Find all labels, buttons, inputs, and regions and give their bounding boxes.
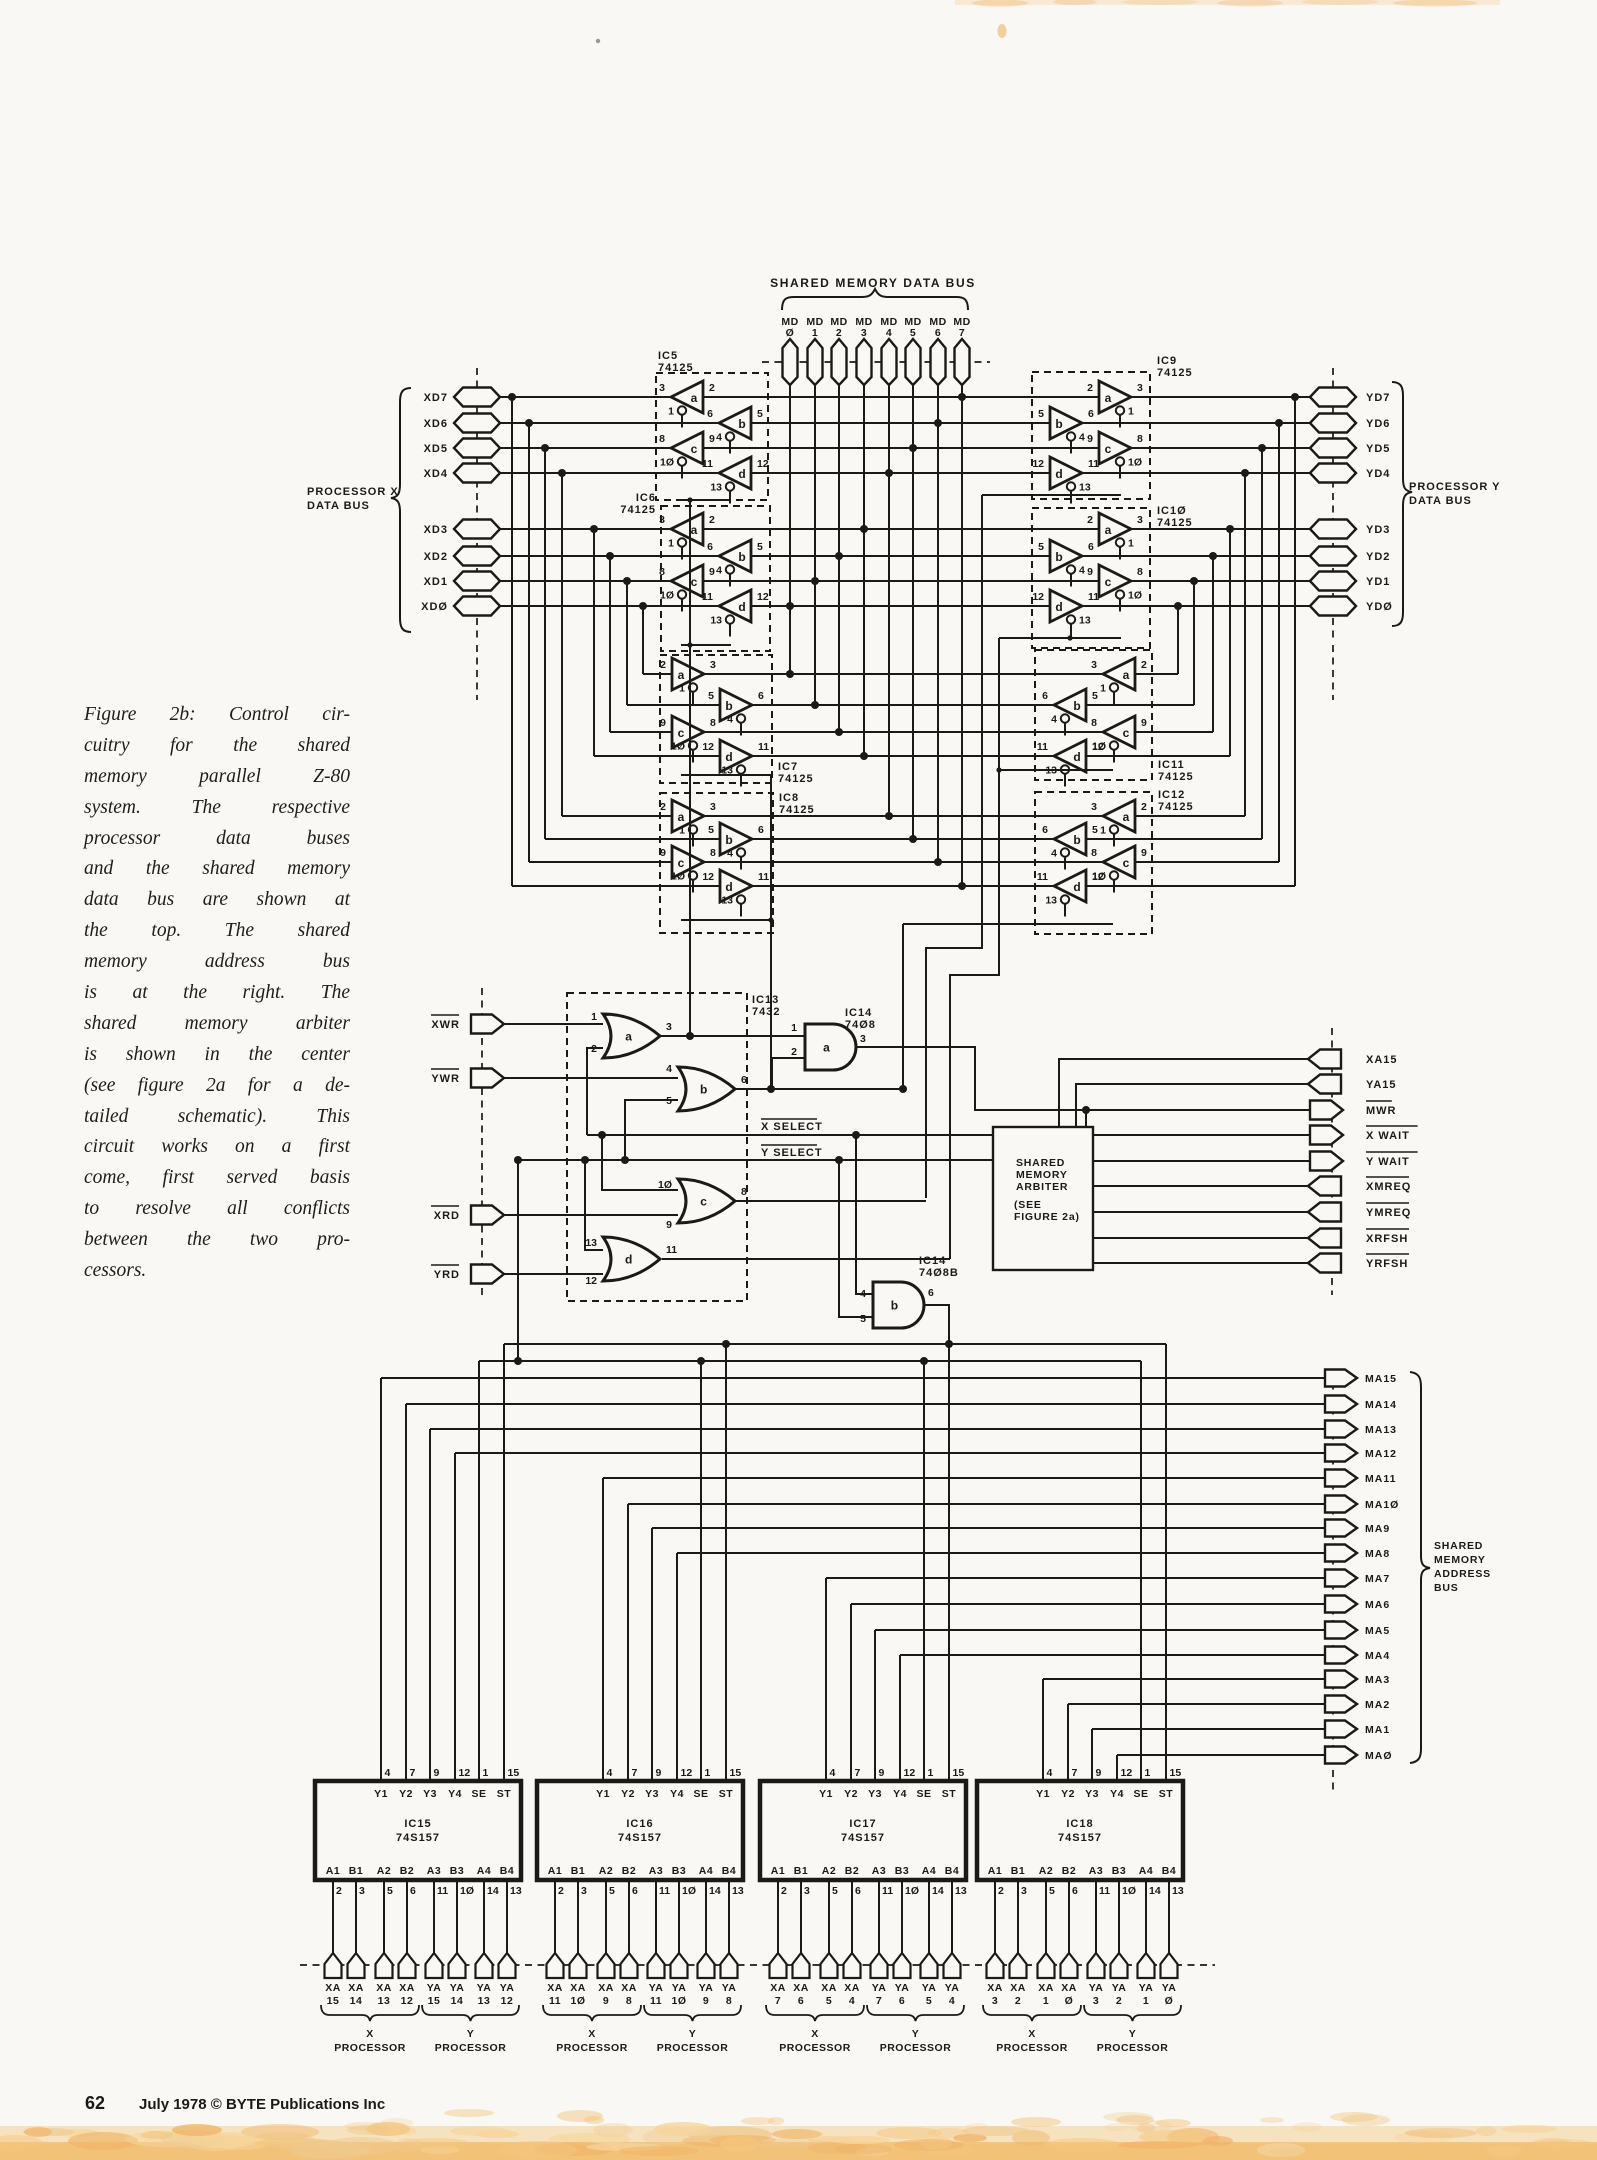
- svg-text:a: a: [625, 1030, 632, 1044]
- svg-text:2: 2: [709, 382, 715, 394]
- node YAØ input terminal IC18: [1161, 1880, 1178, 2007]
- svg-text:7: 7: [876, 1995, 882, 2007]
- svg-text:PROCESSOR X: PROCESSOR X: [307, 486, 399, 498]
- svg-text:A1: A1: [988, 1865, 1002, 1877]
- svg-text:74125: 74125: [620, 504, 656, 516]
- wire OR13b out to AND14a pin2: [735, 1046, 901, 1089]
- svg-text:5: 5: [708, 824, 714, 836]
- svg-text:YA: YA: [672, 1982, 687, 1994]
- svg-text:5: 5: [666, 1095, 672, 1107]
- node YD0 bus terminal: [1310, 597, 1393, 616]
- svg-text:5: 5: [1092, 690, 1098, 702]
- node XA7 input terminal IC17: [770, 1880, 787, 2007]
- svg-text:12: 12: [681, 1767, 693, 1779]
- svg-text:B4: B4: [945, 1865, 959, 1877]
- svg-text:XA: XA: [348, 1982, 364, 1994]
- svg-text:9: 9: [879, 1767, 885, 1779]
- svg-text:5: 5: [860, 1313, 866, 1325]
- wire Y read enable net OR13c to IC9: [926, 495, 982, 1198]
- IC box IC15 74S157: [315, 1767, 522, 1897]
- svg-text:Y1: Y1: [1036, 1788, 1050, 1800]
- brace X processor group IC15: [321, 2005, 419, 2021]
- svg-text:4: 4: [666, 1063, 672, 1075]
- svg-text:XRFSH: XRFSH: [1366, 1233, 1408, 1245]
- svg-text:9: 9: [709, 566, 715, 578]
- node XA15 input terminal IC15: [325, 1880, 342, 2007]
- node XA8 input terminal IC16: [621, 1880, 638, 2007]
- node XD4 bus terminal: [424, 464, 500, 483]
- svg-text:6: 6: [707, 541, 713, 553]
- svg-text:MA14: MA14: [1365, 1399, 1397, 1411]
- svg-text:1Ø: 1Ø: [1122, 1885, 1136, 1897]
- wire IC16 Y4 to MA8 row: [677, 1553, 1325, 1781]
- buffer IC7a: [660, 658, 716, 705]
- wire XD5 drop to write buffer: [544, 448, 546, 839]
- svg-text:BUS: BUS: [1434, 1582, 1459, 1594]
- node MD2 bus terminal: [830, 316, 847, 732]
- svg-text:12: 12: [702, 871, 714, 883]
- node YD2 bus terminal: [1310, 547, 1390, 566]
- svg-text:15: 15: [428, 1995, 441, 2007]
- buffer IC7b: [708, 689, 764, 736]
- svg-text:A3: A3: [649, 1865, 663, 1877]
- buffer IC12b: [1042, 823, 1098, 870]
- label X processor IC18: [996, 2028, 1068, 2054]
- svg-text:2: 2: [1116, 1995, 1122, 2007]
- svg-text:ST: ST: [497, 1788, 512, 1800]
- svg-text:8: 8: [710, 847, 716, 859]
- svg-text:YD4: YD4: [1366, 468, 1390, 480]
- label Y processor IC18: [1097, 2028, 1169, 2054]
- svg-text:6: 6: [855, 1885, 861, 1897]
- svg-text:d: d: [738, 467, 745, 481]
- svg-text:13: 13: [1172, 1885, 1184, 1897]
- svg-text:d: d: [625, 1253, 632, 1267]
- svg-text:74125: 74125: [1157, 517, 1193, 529]
- wire IC17 SE pin: [923, 1361, 925, 1781]
- svg-text:XA: XA: [547, 1982, 563, 1994]
- svg-text:Y3: Y3: [868, 1788, 882, 1800]
- node YD3 bus terminal: [1310, 520, 1390, 539]
- buffer IC6d: [702, 590, 769, 637]
- wire IC7 enable rail: [681, 774, 771, 776]
- svg-text:5: 5: [1038, 541, 1044, 553]
- wire YD7 drop to write buffer: [1294, 397, 1296, 886]
- svg-text:d: d: [1055, 600, 1062, 614]
- svg-text:YRFSH: YRFSH: [1366, 1258, 1408, 1270]
- svg-text:B3: B3: [672, 1865, 686, 1877]
- orange scan edge bottom: [0, 2109, 1597, 2160]
- node YA6 input terminal IC17: [894, 1880, 911, 2007]
- wire XD6 drop to write buffer: [528, 423, 530, 862]
- svg-text:XA: XA: [399, 1982, 415, 1994]
- svg-text:A4: A4: [1139, 1865, 1153, 1877]
- svg-text:12: 12: [1092, 871, 1104, 883]
- svg-text:b: b: [738, 417, 745, 431]
- svg-text:8: 8: [1091, 717, 1097, 729]
- svg-text:12: 12: [1092, 741, 1104, 753]
- node YA4 input terminal IC17: [944, 1880, 961, 2007]
- buffer IC11c: [1091, 716, 1147, 763]
- svg-text:12: 12: [1032, 458, 1044, 470]
- svg-text:13: 13: [585, 1237, 597, 1249]
- svg-text:6: 6: [1088, 408, 1094, 420]
- wire X WAIT row: [1093, 1134, 1310, 1136]
- svg-text:Y1: Y1: [819, 1788, 833, 1800]
- svg-text:9: 9: [1087, 566, 1093, 578]
- svg-text:XDØ: XDØ: [421, 601, 448, 613]
- svg-text:a: a: [1123, 810, 1130, 824]
- brace Y processor group IC15: [422, 2005, 519, 2021]
- svg-text:MA15: MA15: [1365, 1373, 1397, 1385]
- brace Y processor group IC17: [867, 2005, 964, 2021]
- svg-text:IC6: IC6: [636, 492, 656, 504]
- svg-text:IC16: IC16: [626, 1818, 653, 1830]
- svg-text:74125: 74125: [778, 773, 814, 785]
- svg-text:3: 3: [1137, 514, 1143, 526]
- svg-text:YD2: YD2: [1366, 551, 1390, 563]
- svg-text:74125: 74125: [1158, 801, 1194, 813]
- svg-text:YDØ: YDØ: [1366, 601, 1393, 613]
- svg-text:B1: B1: [349, 1865, 363, 1877]
- wire YA15 row into arbiter: [1076, 1084, 1310, 1127]
- svg-text:X: X: [1028, 2028, 1036, 2040]
- svg-text:3: 3: [860, 1033, 866, 1045]
- svg-text:4: 4: [949, 1995, 955, 2007]
- label processor X data bus: [307, 486, 399, 512]
- svg-text:c: c: [691, 575, 698, 589]
- wire XD3 read row / MD3 net upper: [500, 525, 1310, 533]
- wire YD4 drop to write buffer: [1244, 473, 1246, 816]
- svg-text:4: 4: [1047, 1767, 1053, 1779]
- svg-text:ST: ST: [1159, 1788, 1174, 1800]
- svg-text:9: 9: [1141, 847, 1147, 859]
- node MA7 terminal: [1325, 1570, 1390, 1587]
- wire YRFSH row: [1093, 1262, 1310, 1264]
- node XA11 input terminal IC16: [547, 1880, 564, 2007]
- svg-text:XA15: XA15: [1366, 1054, 1398, 1066]
- node MA6 terminal: [1325, 1596, 1390, 1613]
- svg-text:5: 5: [708, 690, 714, 702]
- node XA6 input terminal IC17: [793, 1880, 810, 2007]
- svg-text:XD7: XD7: [424, 392, 448, 404]
- svg-text:74125: 74125: [1158, 771, 1194, 783]
- wire AND14a out MWR to arbiter and terminal: [856, 1047, 1310, 1127]
- svg-text:b: b: [725, 699, 732, 713]
- svg-text:5: 5: [757, 408, 763, 420]
- buffer IC5b: [707, 407, 763, 454]
- svg-text:YA15: YA15: [1366, 1079, 1397, 1091]
- node XD0 bus terminal: [421, 597, 500, 616]
- svg-text:PROCESSOR: PROCESSOR: [334, 2042, 406, 2054]
- svg-text:SE: SE: [916, 1788, 931, 1800]
- wire IC15 SE pin: [478, 1361, 480, 1781]
- svg-text:14: 14: [350, 1995, 363, 2007]
- wire YD5 drop to write buffer: [1261, 448, 1263, 839]
- svg-text:7: 7: [632, 1767, 638, 1779]
- svg-text:1: 1: [1043, 1995, 1049, 2007]
- svg-text:Y4: Y4: [893, 1788, 907, 1800]
- svg-text:XA: XA: [821, 1982, 837, 1994]
- IC box IC7 74125: [660, 655, 814, 785]
- svg-text:Y4: Y4: [670, 1788, 684, 1800]
- svg-text:2: 2: [709, 514, 715, 526]
- svg-text:6: 6: [1042, 690, 1048, 702]
- svg-text:Ø: Ø: [1065, 1995, 1074, 2007]
- node YA13 input terminal IC15: [476, 1880, 493, 2007]
- svg-text:Y2: Y2: [844, 1788, 858, 1800]
- svg-text:B4: B4: [722, 1865, 736, 1877]
- svg-text:YA: YA: [477, 1982, 492, 1994]
- svg-text:Y: Y: [1129, 2028, 1137, 2040]
- svg-text:d: d: [1055, 467, 1062, 481]
- svg-text:1Ø: 1Ø: [660, 457, 674, 469]
- svg-text:c: c: [1105, 442, 1112, 456]
- svg-text:B1: B1: [571, 1865, 585, 1877]
- svg-text:XA: XA: [1061, 1982, 1077, 1994]
- svg-text:13: 13: [1079, 615, 1091, 627]
- svg-text:8: 8: [741, 1186, 747, 1198]
- svg-text:XA: XA: [770, 1982, 786, 1994]
- wire OR13c out row: [735, 1200, 926, 1202]
- svg-text:Ø: Ø: [1165, 1995, 1174, 2007]
- svg-text:MEMORY: MEMORY: [1434, 1554, 1486, 1566]
- wire IC16 ST pin: [725, 1344, 727, 1781]
- svg-text:15: 15: [327, 1995, 340, 2007]
- svg-text:8: 8: [726, 1995, 732, 2007]
- node YWR input terminal: [431, 1069, 504, 1088]
- svg-text:74S157: 74S157: [1058, 1832, 1102, 1844]
- brace Y processor group IC18: [1084, 2005, 1181, 2021]
- svg-text:14: 14: [709, 1885, 721, 1897]
- svg-text:XA: XA: [987, 1982, 1003, 1994]
- svg-text:11: 11: [702, 591, 713, 603]
- node MA2 terminal: [1325, 1696, 1390, 1713]
- wire XRFSH row: [1093, 1237, 1310, 1239]
- svg-text:11: 11: [1088, 458, 1099, 470]
- buffer IC8b: [708, 823, 764, 870]
- wire YD2 drop to write buffer: [1212, 556, 1214, 732]
- svg-text:1: 1: [1143, 1995, 1149, 2007]
- svg-text:IC5: IC5: [658, 350, 678, 362]
- wire XD7 drop to write buffer: [511, 397, 513, 886]
- svg-text:B3: B3: [450, 1865, 464, 1877]
- svg-text:YA: YA: [649, 1982, 664, 1994]
- svg-text:6: 6: [935, 327, 941, 339]
- node MD6 bus terminal: [929, 316, 946, 862]
- svg-text:a: a: [678, 810, 685, 824]
- svg-text:B3: B3: [895, 1865, 909, 1877]
- wire IC17 Y2 to MA6 row: [851, 1604, 1325, 1781]
- node YD1 bus terminal: [1310, 572, 1390, 591]
- node YRFSH terminal: [1308, 1254, 1409, 1273]
- svg-text:SE: SE: [471, 1788, 486, 1800]
- svg-text:9: 9: [1096, 1767, 1102, 1779]
- svg-text:c: c: [700, 1195, 707, 1209]
- svg-text:13: 13: [955, 1885, 967, 1897]
- node MA11 terminal: [1325, 1470, 1396, 1487]
- svg-text:1Ø: 1Ø: [671, 871, 685, 883]
- svg-text:6: 6: [741, 1074, 747, 1086]
- svg-text:MEMORY: MEMORY: [1016, 1169, 1068, 1181]
- svg-text:4: 4: [830, 1767, 836, 1779]
- svg-text:8: 8: [659, 433, 665, 445]
- svg-text:XA: XA: [621, 1982, 637, 1994]
- wire IC15 ST pin: [503, 1344, 505, 1781]
- wire IC17 Y1 to MA7 row: [826, 1578, 1325, 1781]
- wire XD0 drop to write buffer: [642, 606, 644, 674]
- wire Y WAIT row: [1093, 1160, 1310, 1162]
- svg-text:9: 9: [666, 1219, 672, 1231]
- svg-text:11: 11: [702, 458, 713, 470]
- buffer IC9c: [1087, 432, 1143, 479]
- svg-text:b: b: [1073, 833, 1080, 847]
- svg-text:a: a: [1123, 668, 1130, 682]
- wire X SELECT to OR13c pin10: [598, 1131, 678, 1191]
- svg-text:2: 2: [558, 1885, 564, 1897]
- node YA14 input terminal IC15: [449, 1880, 466, 2007]
- buffer IC10c: [1087, 565, 1143, 612]
- svg-text:2: 2: [660, 801, 666, 813]
- svg-text:MA4: MA4: [1365, 1650, 1390, 1662]
- node YA15 input terminal IC15: [426, 1880, 443, 2007]
- brace shared memory address bus: [1410, 1372, 1430, 1763]
- svg-text:B1: B1: [794, 1865, 808, 1877]
- svg-text:11: 11: [549, 1995, 561, 2007]
- svg-text:1: 1: [1100, 825, 1106, 837]
- wire IC18 SE pin: [1140, 1361, 1142, 1781]
- svg-text:14: 14: [932, 1885, 944, 1897]
- node XA4 input terminal IC17: [844, 1880, 861, 2007]
- svg-text:7: 7: [855, 1767, 861, 1779]
- svg-text:Y: Y: [689, 2028, 697, 2040]
- svg-text:X: X: [588, 2028, 596, 2040]
- node MA12 terminal: [1325, 1445, 1397, 1462]
- svg-text:Y2: Y2: [621, 1788, 635, 1800]
- node XA13 input terminal IC15: [376, 1880, 393, 2007]
- buffer IC7d: [702, 740, 769, 787]
- svg-text:3: 3: [804, 1885, 810, 1897]
- node MWR terminal: [1310, 1101, 1397, 1120]
- svg-text:15: 15: [730, 1767, 742, 1779]
- svg-text:SHARED MEMORY DATA BUS: SHARED MEMORY DATA BUS: [770, 276, 976, 290]
- svg-text:74S157: 74S157: [618, 1832, 662, 1844]
- node XD7 bus terminal: [424, 388, 500, 407]
- node YD6 bus terminal: [1310, 414, 1390, 433]
- svg-text:13: 13: [1079, 482, 1091, 494]
- svg-text:2: 2: [1087, 382, 1093, 394]
- IC box IC16 74S157: [537, 1767, 744, 1897]
- svg-text:13: 13: [510, 1885, 522, 1897]
- svg-text:b: b: [738, 550, 745, 564]
- svg-text:MA1Ø: MA1Ø: [1365, 1499, 1399, 1511]
- svg-text:12: 12: [401, 1995, 414, 2007]
- svg-text:14: 14: [1149, 1885, 1161, 1897]
- node MA9 terminal: [1325, 1520, 1390, 1537]
- wire XD6 read row / MD6 net upper: [500, 419, 1310, 427]
- label processor Y data bus: [1409, 481, 1501, 507]
- svg-text:74125: 74125: [779, 804, 815, 816]
- node XRFSH terminal: [1308, 1229, 1409, 1248]
- svg-text:6: 6: [899, 1995, 905, 2007]
- svg-text:5: 5: [926, 1995, 932, 2007]
- wire XD4 read row / MD4 net upper: [500, 469, 1310, 477]
- bus dashed line arbiter terminals: [1331, 1028, 1333, 1295]
- node XMREQ terminal: [1308, 1177, 1411, 1196]
- svg-text:2: 2: [660, 659, 666, 671]
- wire XD1 read row / MD1 net upper: [500, 577, 1310, 585]
- svg-text:c: c: [1105, 575, 1112, 589]
- IC box IC5 74125: [656, 350, 768, 500]
- svg-text:DATA BUS: DATA BUS: [1409, 495, 1472, 507]
- buffer IC12a: [1091, 800, 1147, 847]
- svg-text:1Ø: 1Ø: [905, 1885, 919, 1897]
- svg-text:XD6: XD6: [424, 418, 448, 430]
- svg-text:6: 6: [758, 824, 764, 836]
- wire IC8 enable rail: [681, 917, 774, 922]
- svg-text:b: b: [1055, 417, 1062, 431]
- svg-text:c: c: [691, 442, 698, 456]
- svg-text:2: 2: [781, 1885, 787, 1897]
- svg-text:1Ø: 1Ø: [658, 1179, 672, 1191]
- svg-text:YRD: YRD: [434, 1269, 460, 1281]
- svg-text:YA: YA: [1112, 1982, 1127, 1994]
- svg-text:12: 12: [501, 1995, 514, 2007]
- wire XD1 drop to write buffer: [626, 581, 628, 705]
- svg-text:1Ø: 1Ø: [570, 1995, 585, 2007]
- wire XD5 read row / MD5 net upper: [500, 444, 1310, 452]
- svg-text:4: 4: [1051, 848, 1057, 860]
- svg-text:A4: A4: [699, 1865, 713, 1877]
- svg-text:IC9: IC9: [1157, 355, 1177, 367]
- svg-text:B1: B1: [1011, 1865, 1025, 1877]
- svg-text:(SEE: (SEE: [1014, 1199, 1042, 1211]
- svg-text:5: 5: [910, 327, 916, 339]
- svg-text:B2: B2: [1062, 1865, 1076, 1877]
- svg-text:IC15: IC15: [404, 1818, 431, 1830]
- brace X processor group IC17: [766, 2005, 864, 2021]
- svg-text:1Ø: 1Ø: [1128, 590, 1142, 602]
- svg-text:A2: A2: [822, 1865, 836, 1877]
- svg-text:A3: A3: [427, 1865, 441, 1877]
- svg-text:XD1: XD1: [424, 576, 448, 588]
- svg-text:3: 3: [861, 327, 867, 339]
- node MD5 bus terminal: [904, 316, 921, 839]
- IC box IC11 74125: [1035, 650, 1194, 783]
- svg-text:3: 3: [1091, 801, 1097, 813]
- svg-text:a: a: [1105, 523, 1112, 537]
- svg-text:74Ø8: 74Ø8: [845, 1019, 876, 1031]
- buffer IC12c: [1091, 846, 1147, 893]
- svg-text:74Ø8B: 74Ø8B: [919, 1267, 959, 1279]
- svg-text:XA: XA: [793, 1982, 809, 1994]
- svg-text:15: 15: [1170, 1767, 1182, 1779]
- node XAØ input terminal IC18: [1061, 1880, 1078, 2007]
- and-gate IC14a 7408: [805, 1007, 876, 1070]
- wire MD5 write row: [545, 835, 1262, 843]
- svg-text:13: 13: [378, 1995, 391, 2007]
- svg-text:YA: YA: [922, 1982, 937, 1994]
- svg-text:12: 12: [1032, 591, 1044, 603]
- node MA1Ø terminal: [1325, 1496, 1399, 1513]
- svg-text:4: 4: [727, 714, 733, 726]
- svg-text:PROCESSOR: PROCESSOR: [779, 2042, 851, 2054]
- wire IC5 enable rail: [681, 497, 731, 502]
- wire MD4 write row: [562, 812, 1245, 820]
- brace processor X data bus: [391, 388, 411, 632]
- wire IC12 enable rail: [903, 923, 1113, 925]
- node XD1 bus terminal: [424, 572, 500, 591]
